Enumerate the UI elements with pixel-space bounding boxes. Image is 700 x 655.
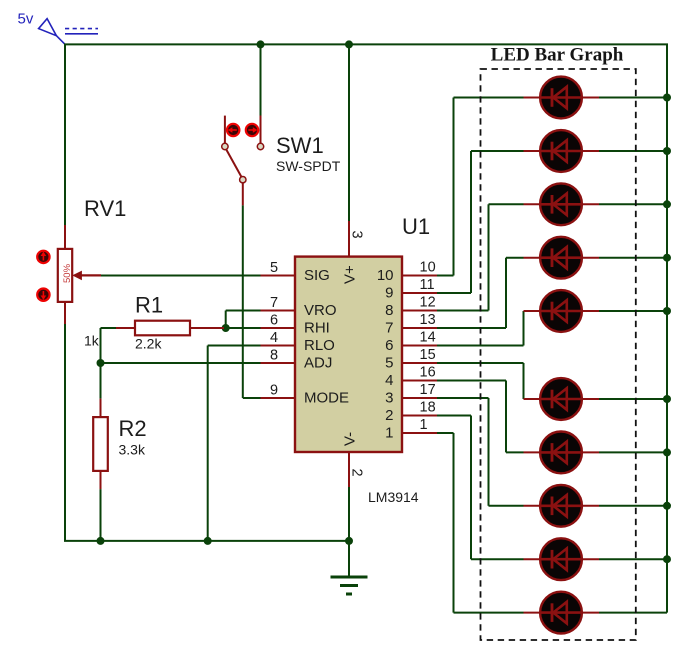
wire pin17 to LED D8 vertical [488, 398, 490, 506]
wire top power rail [64, 43, 668, 45]
svg-text:10: 10 [377, 267, 394, 284]
wire pin11 to LED D2 into LED [471, 150, 524, 152]
svg-text:9: 9 [385, 285, 393, 302]
node switch feed junction [257, 40, 265, 48]
U1 pin 4 (RLO) stub [261, 345, 296, 347]
svg-text:5: 5 [270, 260, 278, 276]
svg-text:9: 9 [270, 383, 278, 399]
svg-text:18: 18 [420, 400, 436, 416]
U1 right pin 12 stub [402, 310, 437, 312]
U1 pin 2 (V-) stub [348, 452, 350, 487]
LED D10 [524, 592, 600, 634]
svg-text:2: 2 [349, 469, 365, 477]
wire switch common down [242, 205, 244, 398]
LED D2 [524, 130, 600, 172]
node R2 ground junction [97, 537, 105, 545]
wire LED D9 anode to bus [599, 558, 667, 560]
U1 pin 3 (V+) stub [348, 221, 350, 257]
LED D5 [524, 290, 600, 332]
wire R1 to RHI pin 6 [224, 327, 261, 329]
wire R1 left lead link [101, 327, 117, 329]
SW1 terminal circles [222, 143, 264, 183]
wire pin15 to LED D6 vertical [523, 363, 525, 399]
wire pin12 to LED D3 vertical [488, 204, 490, 310]
wire to RLO pin 4 [208, 345, 261, 347]
U1 right pin 14 stub [402, 345, 437, 347]
svg-text:17: 17 [420, 382, 436, 398]
svg-text:5: 5 [385, 355, 393, 372]
resistor R1 [116, 321, 224, 336]
wire R2 bottom to ground rail [100, 489, 102, 541]
node V+ feed junction [345, 40, 353, 48]
node bus junction LED D6 [663, 395, 671, 403]
svg-text:SW1: SW1 [276, 133, 324, 158]
wire LED D4 anode to bus [599, 257, 667, 259]
svg-text:6: 6 [385, 337, 393, 354]
node bus junction LED D7 [663, 448, 671, 456]
svg-text:MODE: MODE [304, 390, 349, 407]
U1 right pin 18 stub [402, 415, 437, 417]
wire pin10 to LED D1 into LED [454, 97, 524, 99]
wire pin13 to LED D4 into LED [506, 257, 524, 259]
U1 right pin 17 stub [402, 397, 437, 399]
wire switch feed from top rail [260, 44, 262, 115]
RV1 down button [37, 289, 49, 301]
ground [331, 577, 368, 594]
wire pin18 to LED D9 horizontal [437, 415, 471, 417]
svg-text:10: 10 [420, 260, 436, 276]
wire left rail lower (RV1 to bottom) [64, 324, 66, 541]
wire RHI-VRO vertical link [225, 311, 227, 329]
wire pin11 to LED D2 vertical [470, 151, 472, 293]
U1 right pin 16 stub [402, 380, 437, 382]
wire LED D2 anode to bus [599, 150, 667, 152]
svg-text:RHI: RHI [304, 320, 330, 337]
wire RLO down to ground rail [207, 346, 209, 541]
U1 pin 7 (VRO) stub [261, 310, 296, 312]
node bus junction LED D5 [663, 307, 671, 315]
wire right anode bus vertical [666, 44, 668, 612]
svg-text:LM3914: LM3914 [368, 489, 419, 505]
svg-text:U1: U1 [402, 214, 430, 239]
U1 pin 5 (SIG) stub [261, 275, 296, 277]
node R1-RHI-VRO junction [222, 324, 230, 332]
wire pin13 to LED D4 vertical [505, 258, 507, 328]
svg-text:13: 13 [420, 312, 436, 328]
wire pin14 to LED D5 horizontal [437, 345, 524, 347]
svg-text:RLO: RLO [304, 337, 335, 354]
wire pin15 to LED D6 horizontal [437, 362, 524, 364]
op-amp/IC U1 LM3914 body [295, 257, 402, 452]
wire node to ADJ pin 8 [101, 362, 261, 364]
wire pin18 to LED D9 vertical [470, 416, 472, 560]
wire pin12 to LED D3 into LED [489, 203, 524, 205]
svg-text:1: 1 [420, 417, 428, 433]
wire pin14 to LED D5 into LED [523, 310, 525, 312]
svg-text:ADJ: ADJ [304, 355, 332, 372]
node bus junction LED D9 [663, 555, 671, 563]
wire pin16 to LED D7 into LED [506, 451, 524, 453]
wire bottom ground rail [64, 540, 349, 542]
svg-text:8: 8 [270, 348, 278, 364]
power flag 5v [39, 19, 98, 45]
svg-text:3: 3 [349, 231, 365, 239]
wire pin16 to LED D7 vertical [505, 381, 507, 453]
svg-text:1k: 1k [84, 333, 100, 349]
LED D6 [524, 378, 600, 420]
U1 pin 9 (MODE) stub [261, 397, 296, 399]
node V-/ground junction [345, 537, 353, 545]
wire pin1 to LED D10 vertical [453, 433, 455, 613]
svg-text:11: 11 [420, 277, 435, 293]
svg-text:3.3k: 3.3k [119, 442, 146, 458]
wire LED D5 anode to bus [599, 310, 667, 312]
svg-text:7: 7 [385, 320, 393, 337]
wire LED D8 anode to bus [599, 505, 667, 507]
svg-text:2: 2 [385, 407, 393, 424]
wire pin14 to LED D5 vertical [523, 311, 525, 346]
svg-text:8: 8 [385, 302, 393, 319]
U1 right pin 13 stub [402, 327, 437, 329]
svg-text:4: 4 [270, 330, 278, 346]
node bus junction LED D1 [663, 94, 671, 102]
U1 right pin 11 stub [402, 292, 437, 294]
resistor R2 [93, 399, 108, 490]
wire pin12 to LED D3 horizontal [437, 310, 489, 312]
svg-text:15: 15 [420, 347, 436, 363]
wire R1/R2 vertical (through ADJ node) [100, 328, 102, 399]
U1 pin 8 (ADJ) stub [261, 362, 296, 364]
wire pin1 to LED D10 horizontal [437, 432, 454, 434]
wire ground stem [348, 541, 350, 577]
node ADJ junction [97, 359, 105, 367]
svg-text:SW-SPDT: SW-SPDT [276, 158, 341, 174]
wire V+ feed from top rail [348, 44, 350, 221]
RV1 up button [37, 251, 49, 263]
wire pin10 to LED D1 horizontal [437, 275, 454, 277]
svg-text:1: 1 [385, 425, 393, 442]
svg-text:4: 4 [385, 372, 393, 389]
U1 pin 6 (RHI) stub [261, 327, 296, 329]
wire pin18 to LED D9 into LED [471, 558, 524, 560]
wire pin11 to LED D2 horizontal [437, 292, 471, 294]
switch SW1 [225, 116, 261, 206]
LED D8 [524, 485, 600, 527]
wire pin16 to LED D7 horizontal [437, 380, 506, 382]
wire LED D1 anode to bus [599, 97, 667, 99]
SW1 left button [227, 124, 239, 136]
svg-text:R1: R1 [135, 293, 163, 318]
node bus junction LED D3 [663, 200, 671, 208]
wire pin13 to LED D4 horizontal [437, 327, 506, 329]
LED D1 [524, 77, 600, 119]
wire V- to bottom rail [348, 487, 350, 541]
U1 right pin 15 stub [402, 362, 437, 364]
LED Bar Graph dashed enclosure [481, 69, 636, 640]
LED D9 [524, 538, 600, 580]
svg-text:6: 6 [270, 313, 278, 329]
LED D3 [524, 183, 600, 225]
svg-text:5v: 5v [18, 11, 34, 28]
wire pin10 to LED D1 vertical [453, 98, 455, 276]
svg-text:RV1: RV1 [84, 196, 126, 221]
LED D4 [524, 237, 600, 279]
svg-text:LED Bar Graph: LED Bar Graph [491, 45, 624, 66]
svg-text:2.2k: 2.2k [135, 336, 162, 352]
wire LED D10 anode to bus [599, 612, 667, 614]
U1 right pin 10 stub [402, 275, 437, 277]
wire LED D7 anode to bus [599, 451, 667, 453]
svg-text:16: 16 [420, 365, 436, 381]
wire pin15 to LED D6 into LED [523, 398, 525, 400]
node bus junction LED D8 [663, 502, 671, 510]
svg-text:50%: 50% [62, 263, 73, 283]
wire LED D3 anode to bus [599, 203, 667, 205]
SW1 right button [246, 124, 258, 136]
potentiometer RV1 [58, 225, 101, 324]
svg-text:R2: R2 [119, 416, 147, 441]
wire RV1 wiper to SIG pin 5 [101, 275, 261, 277]
wire pin17 to LED D8 horizontal [437, 397, 489, 399]
svg-text:VRO: VRO [304, 302, 337, 319]
wire to MODE pin 9 [243, 397, 261, 399]
node bus junction LED D2 [663, 147, 671, 155]
wire left rail upper (to RV1) [64, 44, 66, 225]
wire pin17 to LED D8 into LED [489, 505, 524, 507]
svg-text:3: 3 [385, 390, 393, 407]
svg-text:12: 12 [420, 295, 436, 311]
svg-text:V+: V+ [342, 265, 359, 284]
wire to VRO pin 7 [226, 310, 261, 312]
wire LED D6 anode to bus [599, 398, 667, 400]
node RLO ground junction [204, 537, 212, 545]
svg-text:14: 14 [420, 330, 436, 346]
wire pin1 to LED D10 into LED [454, 612, 524, 614]
LED D7 [524, 432, 600, 474]
svg-text:V-: V- [342, 432, 359, 446]
svg-text:7: 7 [270, 295, 278, 311]
U1 right pin 1 stub [402, 432, 437, 434]
node bus junction LED D4 [663, 254, 671, 262]
svg-text:SIG: SIG [304, 267, 330, 284]
